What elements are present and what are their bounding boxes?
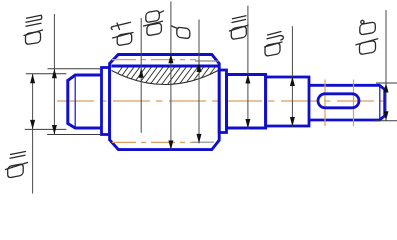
dimension dp-right line: [247, 6, 249, 130]
wire: extension line E3 (journal bottom, y=129.4): [25, 128, 67, 130]
journal right: [227, 75, 266, 129]
keyway section: [309, 85, 385, 120]
gear root concave arc: [112, 71, 219, 85]
label dy: [265, 32, 284, 57]
dimension df line: [140, 18, 142, 133]
label dp bottom-left: [6, 152, 28, 179]
keyway slot centerline vertical 1 (orange): [324, 80, 326, 127]
collar right: [219, 70, 226, 133]
dimension d line: [198, 20, 200, 144]
seal section: [266, 77, 309, 126]
label dv: [356, 20, 378, 54]
dimension dp-left line: [32, 74, 34, 194]
label dm: [24, 15, 43, 44]
dimension dv line: [385, 10, 387, 121]
wire: extension line dv top: [376, 82, 397, 84]
dimension dy line: [291, 26, 293, 127]
wire: extension line dv bottom: [375, 120, 397, 122]
gear hub: [110, 55, 220, 150]
label df: [111, 22, 133, 45]
label da: [144, 10, 164, 36]
wire: extension line E4 (collar bottom, y=134.5): [47, 134, 100, 136]
journal left: [68, 75, 102, 128]
wire: extension line E2 (journal top, y=73.8): [26, 73, 67, 75]
wire: extension line E1 (collar top, y=68.7): [48, 68, 101, 70]
gear root line: [111, 65, 218, 68]
main centerline: [57, 100, 390, 102]
pitch line top gray segment: [195, 60, 219, 62]
pitch line bottom gray segment: [193, 141, 215, 143]
dimension da line: [170, 2, 172, 151]
keyway slot: [318, 94, 359, 108]
label d: [172, 26, 190, 39]
keyway slot centerline vertical 2 (orange): [353, 80, 355, 127]
collar left: [102, 68, 110, 135]
dimension dm line: [53, 14, 55, 135]
label dp right: [230, 16, 249, 40]
pitch line bottom (orange): [112, 141, 193, 143]
pitch line top (orange): [112, 59, 196, 61]
